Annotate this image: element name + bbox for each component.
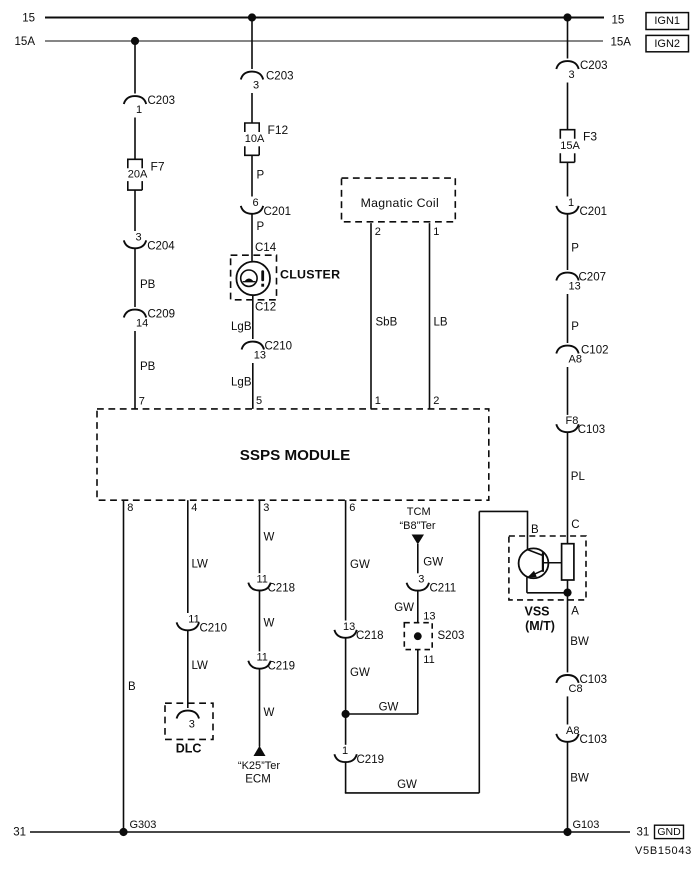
svg-text:20A: 20A [128,169,148,181]
svg-text:GW: GW [397,779,417,791]
svg-text:8: 8 [127,502,133,514]
svg-text:15: 15 [22,13,35,25]
svg-text:BW: BW [570,636,589,648]
svg-text:3: 3 [189,719,195,731]
svg-text:3: 3 [569,69,575,81]
svg-text:A: A [571,605,579,617]
svg-text:4: 4 [191,502,197,514]
svg-text:LB: LB [434,316,448,328]
svg-text:3: 3 [418,574,424,586]
svg-text:“B8”Ter: “B8”Ter [399,520,435,532]
svg-text:TCM: TCM [407,506,431,518]
svg-text:P: P [571,321,579,333]
svg-text:11: 11 [423,654,434,666]
svg-text:C209: C209 [148,309,176,321]
svg-text:31: 31 [637,827,650,839]
svg-text:11: 11 [257,574,268,586]
svg-text:G103: G103 [573,819,600,831]
svg-text:2: 2 [433,395,439,407]
svg-text:IGN2: IGN2 [654,38,680,50]
svg-text:VSS: VSS [524,605,549,619]
svg-text:LgB: LgB [231,321,252,333]
svg-text:B: B [128,681,136,693]
svg-text:3: 3 [253,80,259,92]
svg-text:GW: GW [394,602,414,614]
svg-text:C201: C201 [264,206,292,218]
svg-text:PB: PB [140,279,156,291]
svg-text:SbB: SbB [376,316,398,328]
svg-text:C103: C103 [580,674,608,686]
svg-text:1: 1 [136,104,142,116]
svg-text:3: 3 [263,502,269,514]
svg-text:GW: GW [350,559,370,571]
svg-text:PB: PB [140,361,156,373]
svg-text:C14: C14 [255,242,277,254]
svg-text:A8: A8 [566,725,579,737]
svg-text:P: P [257,221,265,233]
svg-text:GW: GW [423,557,443,569]
svg-text:W: W [264,707,275,719]
svg-text:C103: C103 [578,424,606,436]
svg-text:LgB: LgB [231,377,252,389]
svg-text:C102: C102 [581,345,609,357]
svg-text:C203: C203 [266,71,294,83]
svg-text:15: 15 [612,15,625,27]
svg-text:3: 3 [136,231,142,243]
svg-text:10A: 10A [245,133,265,145]
svg-text:C204: C204 [147,240,175,252]
svg-text:W: W [264,618,275,630]
svg-text:GND: GND [657,826,681,838]
svg-text:V5B15043: V5B15043 [635,845,692,857]
svg-text:1: 1 [342,745,348,757]
svg-text:5: 5 [256,395,262,407]
svg-text:F7: F7 [151,159,165,173]
svg-text:C218: C218 [356,630,384,642]
svg-text:GW: GW [350,667,370,679]
svg-text:(M/T): (M/T) [525,619,555,633]
svg-text:C211: C211 [430,583,457,595]
svg-text:F3: F3 [583,130,597,144]
svg-text:F8: F8 [566,415,579,427]
svg-text:C207: C207 [579,272,607,284]
svg-text:1: 1 [375,395,381,407]
svg-text:B: B [531,524,539,536]
svg-text:P: P [571,243,579,255]
svg-text:13: 13 [343,621,355,633]
svg-text:C203: C203 [148,95,176,107]
svg-text:GW: GW [379,701,399,713]
svg-text:Magnatic Coil: Magnatic Coil [361,196,439,210]
svg-text:DLC: DLC [176,742,202,756]
svg-text:S203: S203 [438,630,465,642]
svg-text:7: 7 [139,396,145,408]
svg-text:C203: C203 [580,60,608,72]
svg-text:15A: 15A [15,36,36,48]
svg-text:1: 1 [433,226,439,238]
svg-text:ECM: ECM [245,773,271,785]
svg-text:LW: LW [192,559,209,571]
svg-text:11: 11 [257,652,268,664]
svg-text:11: 11 [188,613,199,625]
svg-text:“K25”Ter: “K25”Ter [238,760,281,772]
svg-text:BW: BW [570,773,589,785]
svg-text:LW: LW [192,660,209,672]
svg-text:C210: C210 [200,622,228,634]
svg-text:IGN1: IGN1 [654,15,680,27]
svg-text:2: 2 [375,226,381,238]
svg-text:6: 6 [253,197,259,209]
svg-text:C219: C219 [268,661,296,673]
svg-text:15A: 15A [560,140,580,152]
svg-text:F12: F12 [268,123,289,137]
svg-text:1: 1 [568,197,574,209]
svg-text:31: 31 [13,827,26,839]
svg-text:CLUSTER: CLUSTER [280,268,340,282]
svg-text:13: 13 [423,610,435,622]
svg-text:C210: C210 [265,341,293,353]
svg-text:G303: G303 [130,819,157,831]
svg-text:C218: C218 [268,583,296,595]
svg-text:P: P [257,170,265,182]
svg-text:C: C [571,519,579,531]
svg-text:A8: A8 [569,354,582,366]
svg-text:14: 14 [136,318,148,330]
svg-text:C201: C201 [580,206,608,218]
svg-text:C219: C219 [357,754,385,766]
svg-text:W: W [264,532,275,544]
svg-text:C12: C12 [255,302,276,314]
svg-text:PL: PL [571,471,586,483]
svg-text:SSPS MODULE: SSPS MODULE [240,447,351,464]
svg-text:C103: C103 [580,734,608,746]
svg-text:15A: 15A [611,37,632,49]
svg-text:6: 6 [349,502,355,514]
